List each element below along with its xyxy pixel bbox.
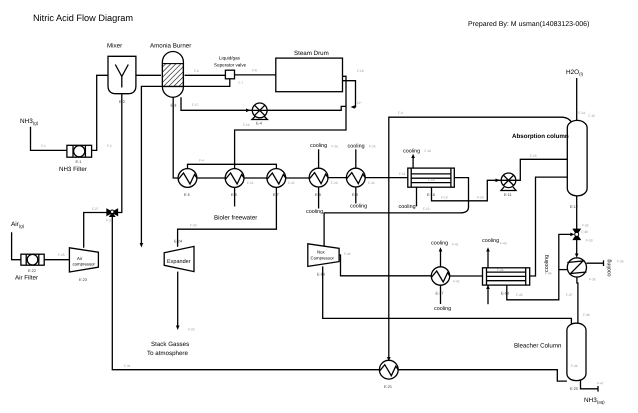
- svg-text:Amonia Burner: Amonia Burner: [150, 43, 191, 50]
- svg-text:Mixer: Mixer: [107, 43, 122, 50]
- wire burner bottom to E-5: [173, 97, 178, 178]
- wire column bottom to bleacher valve: [576, 196, 578, 229]
- wire NOx compressor bottom to bleacher top: [323, 266, 572, 323]
- svg-text:F-46: F-46: [571, 364, 578, 368]
- svg-text:F-9: F-9: [398, 111, 403, 115]
- arrow cooling out E-10 top: [411, 154, 415, 158]
- svg-text:F-34: F-34: [545, 272, 552, 276]
- svg-text:cooling: cooling: [399, 204, 416, 210]
- svg-text:F-20: F-20: [190, 224, 197, 228]
- svg-text:F-13: F-13: [441, 196, 448, 200]
- svg-text:F-4: F-4: [199, 159, 204, 163]
- heat exchanger E-7: [267, 169, 286, 188]
- svg-text:F-42: F-42: [453, 280, 460, 284]
- wire burner to separator valve: [185, 74, 226, 76]
- wire E-6 bottom boiler feedwater stub: [234, 187, 236, 206]
- arrow into valve: [570, 233, 574, 237]
- svg-text:E-12: E-12: [570, 205, 578, 209]
- svg-text:F-44: F-44: [497, 268, 504, 272]
- svg-text:22°: 22°: [357, 101, 363, 105]
- svg-text:F-17: F-17: [192, 103, 199, 107]
- arrow into E-13: [575, 254, 579, 258]
- svg-text:F-38: F-38: [583, 313, 590, 317]
- cooling stub below E-17: [440, 285, 442, 304]
- svg-text:E-5: E-5: [184, 193, 190, 197]
- wire E-10 bottoms to pump E-11: [432, 180, 502, 201]
- svg-text:E-25: E-25: [570, 387, 578, 391]
- arrow into pump E-11: [496, 179, 501, 183]
- svg-text:cooling: cooling: [350, 204, 367, 210]
- svg-text:F-15: F-15: [530, 154, 537, 158]
- wire air filter to compressor: [44, 259, 69, 261]
- steam bracket with arrow: [346, 81, 356, 107]
- wire E-10 to NOx compressor: [324, 178, 468, 246]
- svg-text:Seperator valve: Seperator valve: [214, 63, 247, 68]
- vessel Bleacher Column: [567, 323, 586, 380]
- svg-text:cooling: cooling: [544, 255, 550, 272]
- svg-text:F-25: F-25: [369, 145, 376, 149]
- svg-text:Bleacher Column: Bleacher Column: [514, 343, 562, 350]
- wire expander exhaust to stack: [177, 272, 179, 327]
- wire valve bypass branch: [507, 234, 572, 299]
- svg-text:compressor: compressor: [73, 261, 96, 266]
- cooling stub above E-8: [318, 149, 320, 168]
- heat exchanger E-17: [431, 267, 449, 285]
- steam drum outlet tab: [343, 76, 347, 80]
- svg-text:F-7: F-7: [239, 81, 244, 85]
- svg-text:E-22: E-22: [28, 269, 36, 273]
- svg-text:cooling: cooling: [431, 241, 448, 247]
- svg-text:cooling: cooling: [306, 209, 323, 215]
- svg-text:F-31: F-31: [124, 364, 131, 368]
- svg-text:F-36: F-36: [589, 278, 596, 282]
- svg-text:E-18: E-18: [501, 292, 509, 296]
- arrow cooling out E-17: [439, 247, 443, 251]
- filter E-22 (Air Filter): [21, 254, 44, 265]
- svg-text:F-22: F-22: [288, 181, 295, 185]
- svg-text:F-45: F-45: [516, 293, 523, 297]
- svg-text:cooling: cooling: [434, 306, 451, 312]
- wire E-17 to E-18: [450, 275, 483, 277]
- svg-text:F-25: F-25: [58, 253, 65, 257]
- wire mixer to burner: [136, 74, 161, 76]
- svg-text:E-16: E-16: [317, 273, 325, 277]
- heat exchanger E-6: [225, 169, 244, 188]
- svg-text:F-14: F-14: [579, 111, 586, 115]
- wire branch to E-13: [559, 269, 568, 271]
- svg-text:F-41: F-41: [452, 243, 459, 247]
- wire pump E-11 to absorption column: [516, 159, 568, 180]
- wire H2O feed to column top: [576, 78, 578, 121]
- arrow into drum from bracket: [351, 105, 355, 109]
- svg-text:cooling: cooling: [348, 144, 365, 150]
- svg-text:E-21: E-21: [384, 385, 392, 389]
- svg-text:F-24: F-24: [368, 181, 375, 185]
- arrow cooling out E-18: [486, 247, 490, 251]
- mixer Y symbol: [115, 65, 128, 88]
- svg-text:Bioler freewater: Bioler freewater: [214, 215, 257, 222]
- svg-text:Steam Drum: Steam Drum: [294, 50, 329, 57]
- wire E-13 cooling out right: [587, 260, 604, 266]
- svg-text:F-27: F-27: [92, 207, 99, 211]
- svg-text:F-18: F-18: [357, 69, 364, 73]
- svg-text:E-23: E-23: [79, 278, 87, 282]
- svg-text:F-32: F-32: [582, 224, 589, 228]
- arrow on pump suction line: [246, 109, 251, 113]
- wire E-5 top to E-7 top: [188, 164, 277, 169]
- svg-text:cooling: cooling: [403, 149, 420, 155]
- heat exchanger E-9: [346, 168, 365, 187]
- vessel Steam Drum: [276, 58, 343, 92]
- svg-text:Air Filter: Air Filter: [15, 275, 38, 282]
- heat exchanger E-8: [309, 168, 328, 187]
- svg-text:F-14: F-14: [477, 196, 484, 200]
- cooling stub above E-18: [487, 250, 489, 268]
- svg-text:F-6: F-6: [194, 69, 199, 73]
- cooling stub above E-9: [355, 149, 357, 168]
- pump E-11: [501, 173, 516, 191]
- svg-text:F-37: F-37: [566, 293, 573, 297]
- arrow up into E-18: [486, 285, 490, 289]
- wire absorption loop: E-21 top up and over to column: [389, 117, 573, 360]
- svg-text:F-2: F-2: [107, 144, 112, 148]
- svg-text:F-12: F-12: [423, 207, 430, 211]
- wire E-8 to E-9: [328, 177, 346, 179]
- compressor Air compressor: [69, 248, 98, 272]
- svg-text:To atmosphere: To atmosphere: [147, 350, 188, 357]
- svg-text:F-47: F-47: [597, 382, 604, 386]
- svg-text:Compressor: Compressor: [311, 256, 335, 261]
- wire NH3 feed to filter E-1: [31, 127, 67, 151]
- cooling stub above E-17: [440, 250, 442, 267]
- svg-text:cooling: cooling: [482, 238, 499, 244]
- arrow end of return line: [140, 243, 144, 248]
- cooling stub below E-8: [318, 187, 320, 209]
- svg-text:Nox: Nox: [317, 250, 325, 255]
- svg-text:F-21: F-21: [247, 181, 254, 185]
- wire separator bottom return through burner: [141, 79, 229, 245]
- wire separator to steam drum: [235, 74, 276, 76]
- vessel Absorption column: [567, 120, 587, 195]
- svg-text:Stack Gasses: Stack Gasses: [151, 341, 189, 348]
- svg-text:F-19: F-19: [243, 123, 250, 127]
- svg-text:F-11: F-11: [399, 172, 406, 176]
- wire valve to E-13: [576, 240, 578, 256]
- pump E-4: [252, 103, 267, 120]
- cooling stub below E-18 left: [487, 285, 489, 304]
- svg-text:F-43: F-43: [500, 242, 507, 246]
- svg-text:E-1: E-1: [76, 160, 82, 164]
- cooling stub below E-9: [355, 187, 357, 204]
- svg-text:Absorption column: Absorption column: [512, 133, 569, 140]
- svg-text:E-24: E-24: [174, 240, 182, 244]
- svg-text:F-40: F-40: [344, 252, 351, 256]
- svg-text:E-11: E-11: [504, 193, 512, 197]
- svg-text:Expander: Expander: [167, 259, 191, 265]
- svg-text:Prepared By: M usman(14083123-: Prepared By: M usman(14083123-006): [468, 20, 589, 28]
- wire E-7 bottom to expander: [178, 187, 277, 246]
- compressor NOx Compressor: [308, 244, 339, 267]
- separator valve box: [225, 70, 234, 79]
- bleacher valve (vertical): [574, 229, 581, 239]
- svg-text:F-3: F-3: [106, 219, 111, 223]
- wire column side draw to E-18: [530, 177, 568, 276]
- svg-text:F-29: F-29: [188, 328, 195, 332]
- heat exchanger E-10 shell and tube: [408, 168, 455, 187]
- svg-text:F-30: F-30: [582, 230, 589, 234]
- filter E-1 (NH3 Filter): [67, 145, 92, 157]
- cooling stub below E-10: [416, 187, 418, 206]
- turbine Expander: [164, 246, 194, 271]
- svg-text:NH3 Filter: NH3 Filter: [59, 166, 87, 173]
- svg-text:E-9: E-9: [352, 193, 358, 197]
- vessel Mixer: [108, 56, 136, 93]
- svg-text:E-4: E-4: [256, 122, 262, 126]
- svg-text:F-33: F-33: [586, 239, 593, 243]
- svg-text:Nitric Acid Flow Diagram: Nitric Acid Flow Diagram: [33, 13, 133, 23]
- heat exchanger E-21: [379, 360, 398, 379]
- svg-text:E-17: E-17: [436, 292, 444, 296]
- burner catalyst hatched band: [162, 64, 183, 87]
- svg-text:cooling: cooling: [607, 259, 613, 276]
- wire mixer bottom down to air valve: [118, 94, 122, 213]
- svg-text:Liquid/gas: Liquid/gas: [219, 56, 241, 61]
- svg-text:cooling: cooling: [310, 143, 327, 149]
- arrow into E-21: [387, 357, 391, 361]
- svg-text:F-10: F-10: [428, 178, 435, 182]
- wire E-6 to E-7: [244, 177, 267, 179]
- wire filter to mixer: [92, 75, 108, 150]
- svg-text:F-16: F-16: [425, 149, 432, 153]
- svg-text:F-15: F-15: [589, 114, 596, 118]
- svg-text:F-23: F-23: [331, 181, 338, 185]
- heat exchanger E-18 shell and tube: [483, 268, 530, 285]
- svg-text:F-8: F-8: [252, 69, 257, 73]
- vessel Ammonia Burner: [162, 52, 183, 98]
- svg-text:F-35: F-35: [617, 260, 624, 264]
- cooling stub above E-10: [412, 157, 414, 169]
- wire burner to pump E-4 suction: [181, 97, 252, 110]
- heat exchanger E-5: [178, 169, 197, 188]
- heat exchanger E-13: [567, 258, 586, 277]
- wire E-9 to E-10: [365, 177, 408, 179]
- wire NOx compressor to E-17: [339, 255, 431, 276]
- wire air feed to filter: [12, 232, 21, 259]
- wire E-5 to E-6: [197, 177, 225, 179]
- arrow stack gases: [176, 326, 180, 331]
- three-way air valve: [107, 209, 118, 216]
- svg-text:F-26: F-26: [332, 145, 339, 149]
- wire E-7 to E-8: [286, 177, 310, 179]
- wire compressor discharge up to valve: [84, 213, 107, 248]
- wire pump E-4 to steam drum riser: [235, 81, 346, 169]
- wire E-13 to bleacher: [577, 277, 578, 323]
- svg-text:Air: Air: [77, 256, 83, 261]
- wire bleacher bottom NH3 out: [581, 380, 599, 391]
- wire valve bleed down and bottom line to bleacher: [112, 217, 567, 382]
- svg-text:F-1: F-1: [41, 144, 46, 148]
